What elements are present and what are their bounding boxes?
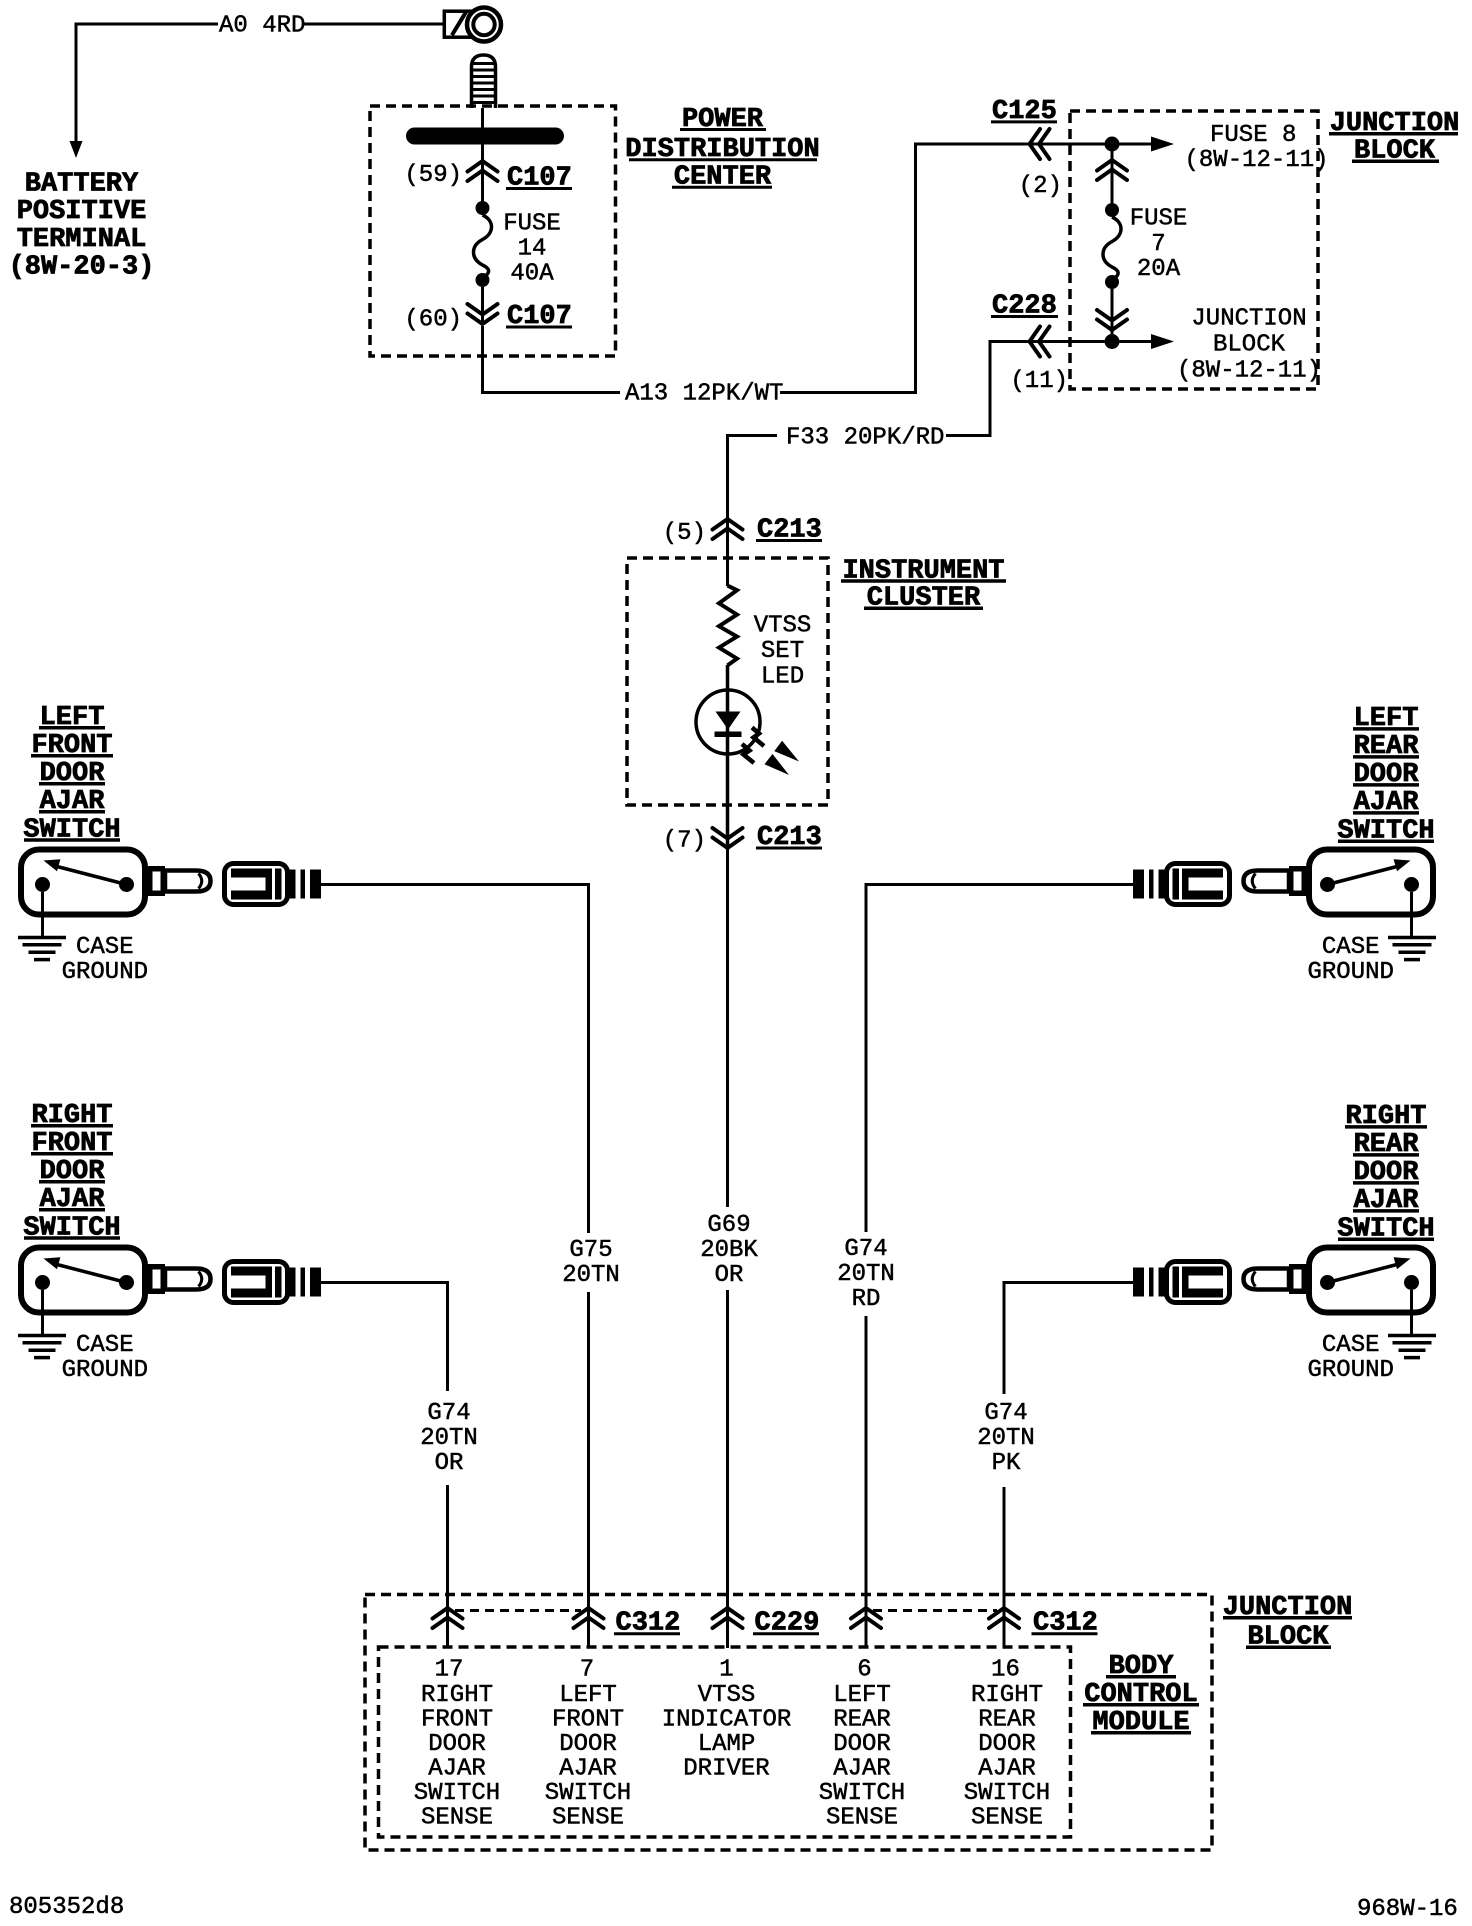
svg-text:OR: OR [435, 1450, 464, 1477]
svg-text:A0 4RD: A0 4RD [219, 13, 305, 40]
svg-text:G69: G69 [707, 1212, 750, 1239]
node on fuse 8 feed [1105, 137, 1120, 152]
wire G74 PK lower segment [1003, 1487, 1006, 1648]
svg-text:G75: G75 [569, 1237, 612, 1264]
wire A13 12PK/WT [483, 144, 1107, 393]
svg-text:(7): (7) [663, 828, 706, 855]
connector C228 [991, 292, 1068, 396]
pin 17 function label [414, 1682, 500, 1832]
svg-text:RD: RD [852, 1286, 881, 1313]
bus bar [406, 128, 564, 145]
svg-text:LEFT: LEFT [559, 1682, 617, 1709]
svg-text:VTSS: VTSS [754, 612, 812, 639]
svg-text:7: 7 [1151, 231, 1165, 258]
svg-text:AJAR: AJAR [833, 1755, 891, 1782]
svg-text:G74: G74 [427, 1400, 470, 1427]
svg-text:20A: 20A [1137, 256, 1181, 283]
svg-text:805352d8: 805352d8 [9, 1894, 124, 1921]
svg-text:SWITCH: SWITCH [414, 1780, 500, 1807]
right rear door ajar switch with connector and case ground [1133, 1248, 1436, 1358]
right rear door ajar switch title [1337, 1102, 1434, 1244]
svg-text:F33 20PK/RD: F33 20PK/RD [786, 425, 944, 452]
svg-text:FRONT: FRONT [552, 1706, 624, 1733]
svg-text:SET: SET [761, 638, 804, 665]
svg-text:REAR: REAR [833, 1706, 891, 1733]
wire G74 from right front switch [321, 1283, 448, 1392]
junction block title (bottom) [1223, 1593, 1353, 1653]
svg-text:CASE: CASE [76, 1332, 134, 1359]
left front door ajar switch title [23, 703, 120, 845]
svg-text:SENSE: SENSE [826, 1804, 898, 1831]
instrument cluster title [841, 556, 1006, 613]
svg-text:GROUND: GROUND [62, 1357, 148, 1384]
svg-text:AJAR: AJAR [559, 1755, 617, 1782]
wire bus bar through connector to fuse [481, 145, 484, 204]
connector C125 [991, 97, 1062, 200]
ring terminal eyelet [444, 8, 501, 42]
case ground label (right front) [62, 1332, 148, 1384]
case ground label (left rear) [1307, 934, 1393, 986]
svg-text:DOOR: DOOR [428, 1731, 486, 1758]
svg-text:G74: G74 [984, 1400, 1027, 1427]
svg-text:DOOR: DOOR [559, 1731, 617, 1758]
svg-text:(11): (11) [1010, 368, 1068, 395]
svg-text:AJAR: AJAR [428, 1755, 486, 1782]
svg-text:GROUND: GROUND [62, 959, 148, 986]
svg-text:(8W-12-11): (8W-12-11) [1177, 358, 1321, 385]
wire G74 from left rear switch [866, 885, 1133, 1233]
pin 16 function label [964, 1682, 1050, 1832]
wire label G69 20BK OR [700, 1212, 758, 1289]
wire node to fuse 7 [1111, 144, 1114, 203]
svg-text:(5): (5) [663, 520, 706, 547]
svg-text:40A: 40A [510, 260, 554, 287]
right front door ajar switch title [23, 1101, 120, 1243]
pin 1 function label [662, 1682, 792, 1783]
case ground label (left front) [62, 934, 148, 986]
right front door ajar switch with connector and case ground [18, 1248, 321, 1358]
connector C312 left (pins 17 and 7) [433, 1608, 681, 1639]
left front door ajar switch with connector and case ground [18, 850, 321, 960]
svg-text:(59): (59) [404, 162, 462, 189]
resistor VTSS SET LED [719, 586, 811, 691]
wire G74 RD lower segment [865, 1316, 868, 1648]
connector C107 pin 60 [404, 302, 572, 334]
svg-text:INDICATOR: INDICATOR [662, 1706, 792, 1733]
connector into fuse 7 [1097, 160, 1127, 180]
wire G74 from right rear switch [1004, 1283, 1133, 1395]
pin 6 function label [819, 1682, 905, 1832]
left rear door ajar switch with connector and case ground [1133, 850, 1436, 960]
svg-text:(8W-12-11): (8W-12-11) [1185, 147, 1329, 174]
connector C107 pin 59 [404, 161, 572, 194]
svg-text:SWITCH: SWITCH [964, 1780, 1050, 1807]
power distribution center dashed box [370, 106, 616, 356]
wire label G74 20TN OR [420, 1400, 478, 1477]
svg-text:FUSE 8: FUSE 8 [1210, 122, 1296, 149]
svg-text:(60): (60) [404, 307, 462, 334]
svg-text:20TN: 20TN [977, 1425, 1035, 1452]
pin 7 function label [545, 1682, 631, 1832]
svg-text:AJAR: AJAR [978, 1755, 1036, 1782]
svg-text:TERMINAL: TERMINAL [17, 225, 147, 255]
junction block dashed box (top) [1070, 111, 1318, 389]
connector C229 (pin 1) [713, 1608, 820, 1639]
connector out of fuse 7 [1097, 310, 1127, 330]
wire G69 lower segment [726, 1290, 729, 1648]
svg-text:16: 16 [991, 1656, 1020, 1683]
body control module dashed box [379, 1647, 1071, 1837]
svg-text:CASE: CASE [76, 934, 134, 961]
wire fuse 7 to junction block node [1111, 289, 1114, 342]
battery positive terminal label [9, 170, 155, 283]
connector C312 right (pins 6 and 16) [851, 1608, 1098, 1639]
wire F33 20PK/RD [728, 342, 1107, 587]
case ground label (right rear) [1307, 1332, 1393, 1384]
wire fusible link to bus bar [481, 108, 484, 128]
wire G75 from left front switch [321, 885, 589, 1234]
svg-text:17: 17 [435, 1656, 464, 1683]
svg-text:(2): (2) [1019, 173, 1062, 200]
wire label G74 20TN PK [977, 1400, 1035, 1477]
svg-text:BATTERY: BATTERY [25, 170, 139, 200]
svg-text:RIGHT: RIGHT [421, 1682, 493, 1709]
svg-text:DOOR: DOOR [978, 1731, 1036, 1758]
svg-text:G74: G74 [844, 1236, 887, 1263]
svg-text:DOOR: DOOR [833, 1731, 891, 1758]
svg-text:JUNCTION: JUNCTION [1191, 306, 1306, 333]
svg-text:20BK: 20BK [700, 1237, 758, 1264]
power distribution center title [625, 105, 819, 193]
svg-text:20TN: 20TN [562, 1262, 620, 1289]
svg-text:7: 7 [580, 1656, 594, 1683]
svg-text:1: 1 [719, 1656, 733, 1683]
arrow to junction block [1112, 306, 1321, 385]
junction block dashed box (bottom) [365, 1595, 1212, 1851]
svg-text:VTSS: VTSS [698, 1682, 756, 1709]
svg-text:LED: LED [761, 663, 804, 690]
svg-text:968W-16: 968W-16 [1357, 1896, 1458, 1923]
connector C213 pin 5 [663, 516, 822, 548]
fusible link [472, 55, 496, 108]
svg-text:SENSE: SENSE [552, 1804, 624, 1831]
svg-text:REAR: REAR [978, 1706, 1036, 1733]
wire fuse to connector 60 [481, 287, 484, 325]
svg-text:20TN: 20TN [837, 1261, 895, 1288]
svg-text:20TN: 20TN [420, 1425, 478, 1452]
svg-text:DRIVER: DRIVER [683, 1755, 769, 1782]
arrow to fuse 8 [1112, 122, 1329, 174]
wire label G74 20TN RD [837, 1236, 895, 1313]
connector C213 pin 7 [663, 823, 822, 855]
LED indicator [696, 690, 799, 775]
wire label G75 20TN [562, 1237, 620, 1289]
svg-text:FUSE: FUSE [503, 210, 561, 237]
wire resistor to LED and out of cluster [726, 665, 730, 848]
svg-text:GROUND: GROUND [1307, 959, 1393, 986]
svg-text:FUSE: FUSE [1130, 205, 1188, 232]
svg-text:LAMP: LAMP [698, 1731, 756, 1758]
svg-text:SWITCH: SWITCH [545, 1780, 631, 1807]
wire A0 4RD from battery to eyelet [76, 24, 445, 143]
svg-text:OR: OR [715, 1262, 744, 1289]
junction block title (top) [1329, 109, 1459, 166]
svg-text:A13 12PK/WT: A13 12PK/WT [625, 381, 783, 408]
svg-text:BLOCK: BLOCK [1213, 332, 1286, 359]
svg-text:POSITIVE: POSITIVE [17, 197, 147, 227]
body control module title [1083, 1652, 1199, 1738]
arrow to battery positive terminal [70, 141, 83, 158]
wire G74 OR lower segment [446, 1485, 449, 1648]
svg-text:SENSE: SENSE [421, 1804, 493, 1831]
fuse 7 20A [1103, 203, 1187, 289]
svg-text:RIGHT: RIGHT [971, 1682, 1043, 1709]
svg-text:SWITCH: SWITCH [819, 1780, 905, 1807]
svg-text:CASE: CASE [1322, 1332, 1380, 1359]
fuse 14 40A [474, 201, 561, 287]
wire G69 upper segment [726, 848, 729, 1207]
svg-text:SENSE: SENSE [971, 1804, 1043, 1831]
svg-text:CASE: CASE [1322, 934, 1380, 961]
node on junction block feed [1105, 334, 1120, 349]
svg-text:(8W-20-3): (8W-20-3) [9, 253, 155, 283]
left rear door ajar switch title [1337, 704, 1434, 846]
svg-text:LEFT: LEFT [833, 1682, 891, 1709]
svg-text:6: 6 [857, 1656, 871, 1683]
svg-text:14: 14 [518, 236, 547, 263]
svg-text:PK: PK [992, 1450, 1021, 1477]
svg-text:FRONT: FRONT [421, 1706, 493, 1733]
instrument cluster dashed box [627, 558, 828, 805]
wire G75 lower segment [587, 1292, 590, 1648]
svg-text:GROUND: GROUND [1307, 1357, 1393, 1384]
